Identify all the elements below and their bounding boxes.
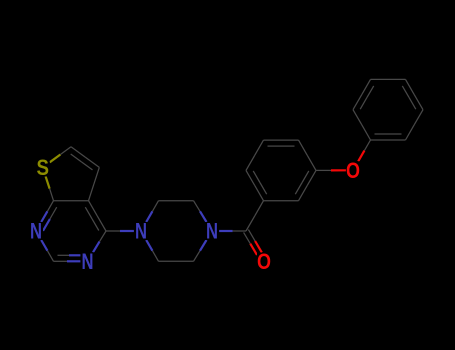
atom label masks	[29, 158, 360, 270]
bond D-E	[371, 78, 406, 80]
double bond I2=B	[371, 134, 406, 140]
bond C7a-C4a fusion	[54, 200, 89, 202]
double bond O1=M	[295, 170, 316, 200]
svg-text:O: O	[257, 249, 271, 274]
bond Ctl-Ctr	[159, 200, 194, 202]
bond M-P	[299, 140, 317, 170]
bond F-I2	[353, 110, 371, 140]
double bond O2=I	[246, 170, 267, 200]
svg-text:O: O	[346, 158, 360, 183]
double bond C2t=C3t	[71, 147, 100, 170]
bond N3-C4	[93, 231, 106, 252]
bond Cc-ring1	[246, 201, 264, 231]
svg-text:N: N	[135, 219, 147, 244]
bond Np1-Cbl	[146, 240, 158, 261]
double bond P=M2	[264, 140, 299, 146]
svg-text:S: S	[36, 155, 49, 180]
double bond C=D	[402, 79, 423, 109]
bond Cbl-Cbr	[159, 260, 194, 262]
bond M-Oe	[316, 169, 346, 171]
bond I-O1	[264, 200, 299, 202]
bond Np2-Cc	[219, 230, 246, 232]
bond C4-Np1	[106, 230, 134, 232]
double bond C=O carbonyl	[244, 230, 262, 255]
double bond E=F	[353, 79, 374, 109]
svg-text:N: N	[30, 219, 42, 244]
bond C3t-C4a	[89, 167, 100, 200]
svg-text:N: N	[206, 219, 218, 244]
double bond C2=N3	[54, 255, 81, 261]
bond Ctr-Np2	[194, 201, 207, 222]
bond Oe-ring2	[358, 140, 370, 161]
svg-text:N: N	[82, 249, 94, 274]
double bond C4=C4a	[85, 201, 106, 231]
bond S-C7a	[46, 176, 54, 200]
double bond N1=C7a	[41, 201, 57, 231]
bond B-C	[406, 110, 424, 140]
bond M2-O2	[246, 140, 264, 170]
bond N1-C2	[41, 240, 53, 261]
bond Np1-Ctl	[146, 201, 158, 222]
bond Cbr-Np2	[194, 240, 207, 261]
bond S-C2t	[50, 147, 71, 163]
